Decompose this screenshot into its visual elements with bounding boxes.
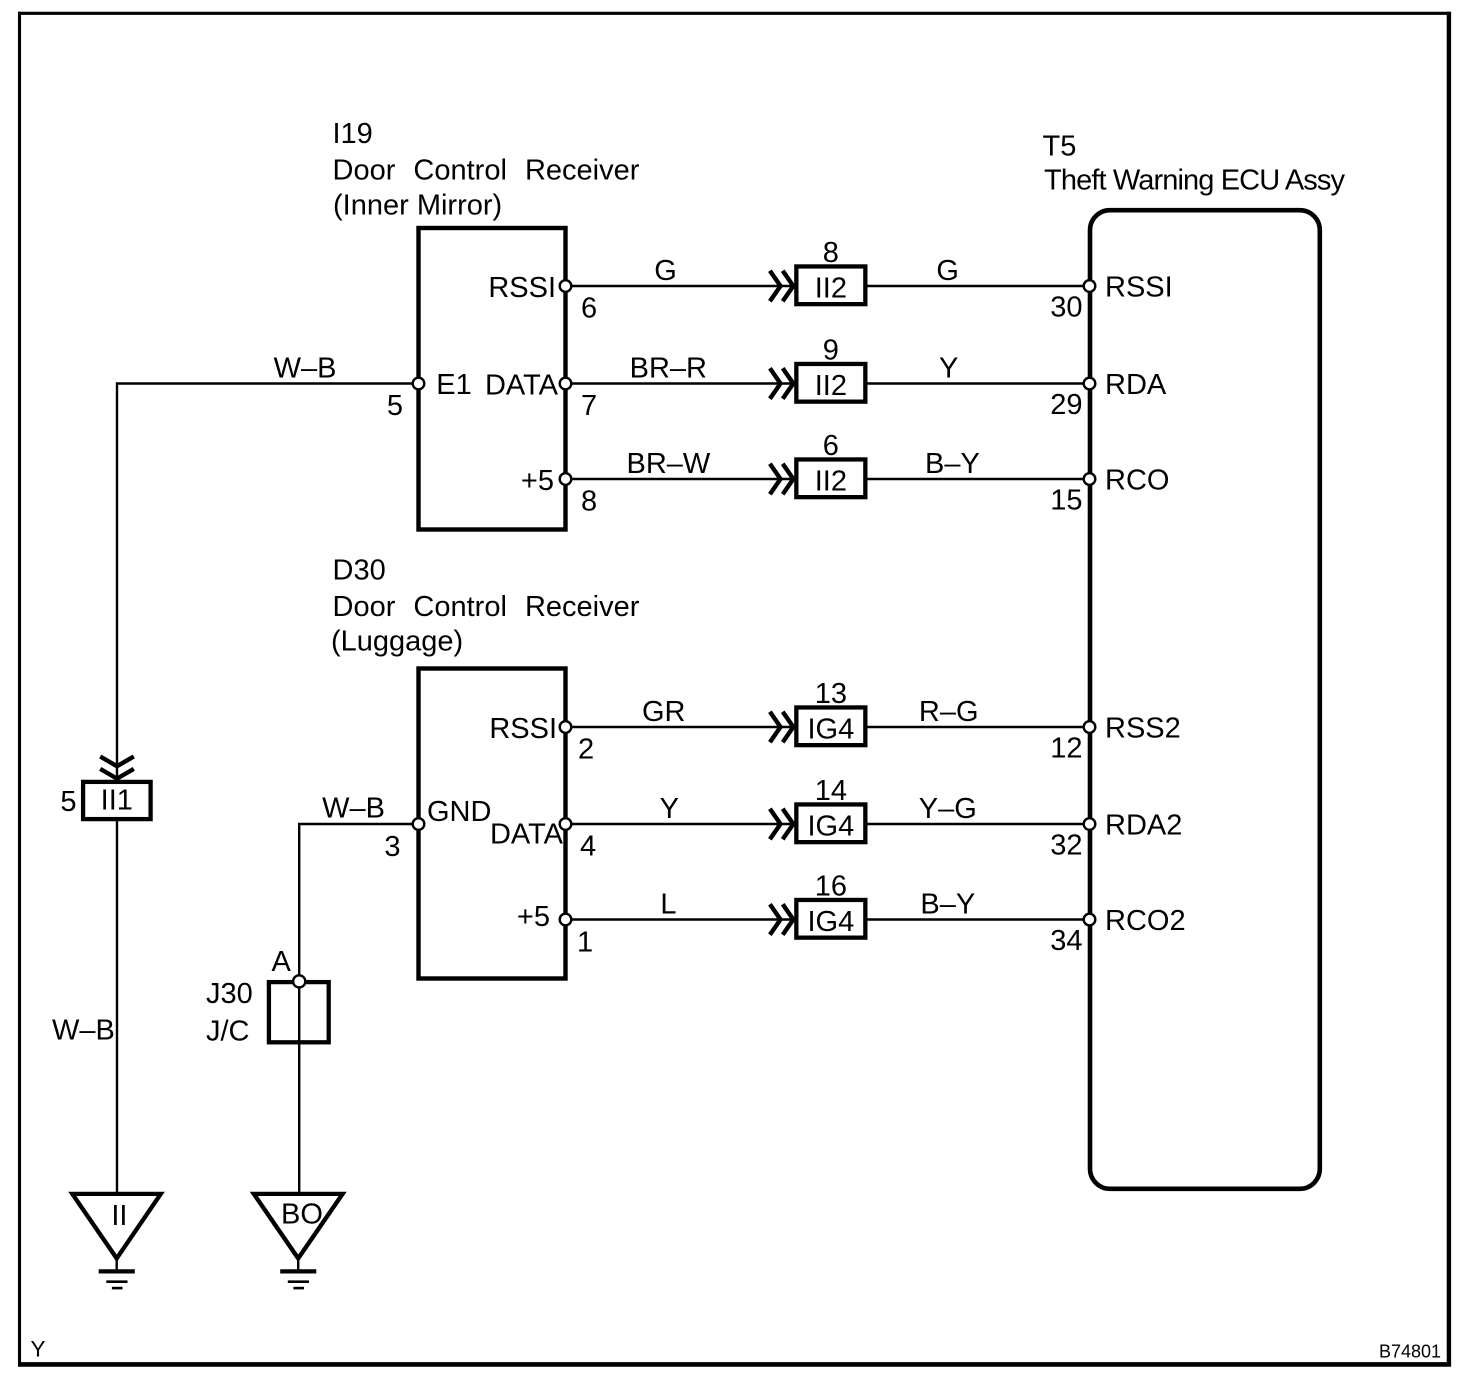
svg-text:RSSI: RSSI [1105,272,1173,304]
svg-text:GND: GND [427,796,491,828]
svg-text:BR–W: BR–W [627,448,711,480]
pin 6 RSSI of I19 [560,280,572,292]
svg-text:D30: D30 [333,555,386,587]
svg-text:13: 13 [815,678,847,710]
svg-text:3: 3 [384,831,400,863]
junction connector J30 box [269,982,329,1042]
label I19 Door Control Receiver (Inner Mirror) [333,118,640,222]
ground symbol under II [99,1258,135,1288]
ground symbol under BO [280,1258,316,1288]
connector II2 chevrons row 2 [770,368,793,399]
svg-text:T5: T5 [1043,131,1077,163]
svg-text:B–Y: B–Y [920,889,975,921]
wire bot row 1 right segment (R–G) [865,726,1089,728]
svg-text:RDA2: RDA2 [1105,810,1182,842]
door control receiver D30 box [419,669,566,979]
svg-text:(Luggage): (Luggage) [331,626,463,658]
svg-text:RSSI: RSSI [488,272,556,304]
wire top row 1 right segment (G) [865,285,1089,287]
svg-text:29: 29 [1050,389,1082,421]
svg-text:E1: E1 [436,369,471,401]
pin 8 +5 of I19 [560,473,572,485]
svg-text:2: 2 [578,734,594,766]
wire W-B from I19 pin 5 to connector II1 [117,384,419,781]
svg-text:A: A [272,946,292,978]
svg-text:IG4: IG4 [807,811,854,843]
connector II2 chevrons row 1 [770,271,793,302]
label J30 J/C [206,978,253,1048]
svg-text:II: II [111,1200,127,1232]
svg-text:II2: II2 [815,370,847,402]
svg-text:8: 8 [823,237,839,269]
pin 32 RDA2 of T5 [1084,818,1096,830]
pin 30 RSSI of T5 [1084,280,1096,292]
svg-text:L: L [660,889,676,921]
svg-text:Theft Warning ECU Assy: Theft Warning ECU Assy [1044,165,1346,197]
svg-text:BO: BO [281,1199,323,1231]
svg-text:R–G: R–G [919,696,979,728]
svg-text:W–B: W–B [52,1015,115,1047]
svg-text:DATA: DATA [490,819,564,851]
svg-text:6: 6 [581,293,597,325]
svg-text:1: 1 [577,927,593,959]
wire bot row 3 right segment (B–Y) [865,918,1089,920]
connector II2 box row 2 (pin 9) [796,364,865,402]
connector II1 chevrons [100,757,134,779]
svg-text:IG4: IG4 [807,906,854,938]
svg-text:9: 9 [823,335,839,367]
svg-text:+5: +5 [521,465,554,497]
svg-text:B74801: B74801 [1379,1342,1441,1362]
svg-text:RDA: RDA [1105,369,1167,401]
svg-text:RCO: RCO [1105,465,1169,497]
connector IG4 chevrons row 2 [770,809,793,840]
svg-text:6: 6 [823,430,839,462]
ground BO triangle [254,1194,343,1259]
svg-text:30: 30 [1050,292,1082,324]
wire bot row 2 right segment (Y–G) [865,823,1089,825]
label D30 Door Control Receiver (Luggage) [331,555,640,658]
wire top row 2 left segment (BR–R) [566,382,797,384]
ground II triangle [72,1194,161,1259]
svg-text:W–B: W–B [322,793,385,825]
pin 34 RCO2 of T5 [1084,914,1096,926]
svg-text:8: 8 [581,486,597,518]
pin 3 GND of D30 [413,818,425,830]
svg-text:15: 15 [1050,485,1082,517]
svg-text:7: 7 [581,390,597,422]
wire from II1 to ground II [116,821,118,1193]
connector II2 chevrons row 3 [770,464,793,495]
pin 12 RSS2 of T5 [1084,721,1096,733]
svg-text:+5: +5 [517,901,550,933]
svg-text:Y–G: Y–G [919,793,977,825]
svg-text:W–B: W–B [274,353,337,385]
theft warning ECU T5 box [1090,210,1320,1189]
svg-text:BR–R: BR–R [630,353,707,385]
svg-text:B–Y: B–Y [925,448,980,480]
svg-text:(Inner Mirror): (Inner Mirror) [333,190,502,222]
pin 7 DATA of I19 [560,378,572,390]
svg-text:II1: II1 [101,785,133,817]
svg-text:Door Control Receiver: Door Control Receiver [333,591,640,623]
svg-text:14: 14 [815,775,847,807]
wire bot row 2 left segment (Y) [566,823,797,825]
svg-text:5: 5 [387,390,403,422]
svg-text:GR: GR [642,696,686,728]
connector II2 box row 3 (pin 6) [796,459,865,497]
svg-text:4: 4 [580,831,596,863]
wire bot row 1 left segment (GR) [566,726,797,728]
svg-text:G: G [654,255,677,287]
svg-text:Door Control Receiver: Door Control Receiver [333,155,640,187]
svg-text:G: G [936,255,959,287]
wire W-B from D30 pin 3 through J30 to ground BO [299,824,418,1193]
connector IG4 box row 1 (pin 13) [796,707,865,745]
wire top row 2 right segment (Y) [865,382,1089,384]
svg-text:RSSI: RSSI [489,713,557,745]
svg-text:IG4: IG4 [807,714,854,746]
svg-text:Y: Y [660,793,679,825]
svg-text:DATA: DATA [485,370,559,402]
pin 5 (E1) of I19 [413,378,425,390]
connector II2 box row 1 (pin 8) [796,266,865,304]
svg-text:II2: II2 [815,273,847,305]
connector IG4 box row 3 (pin 16) [796,900,865,938]
svg-text:16: 16 [815,871,847,903]
wire top row 1 left segment (G) [566,285,797,287]
pin 4 DATA of D30 [560,818,572,830]
pin 1 +5 of D30 [560,914,572,926]
pin 29 RDA of T5 [1084,378,1096,390]
svg-text:Y: Y [31,1337,46,1362]
node A pin circle on J30 [293,975,305,987]
wire bot row 3 left segment (L) [566,918,797,920]
svg-text:5: 5 [60,786,76,818]
connector IG4 chevrons row 1 [770,712,793,743]
label T5 Theft Warning ECU Assy [1043,131,1346,197]
svg-text:J30: J30 [206,978,253,1010]
svg-text:II2: II2 [815,466,847,498]
svg-text:RSS2: RSS2 [1105,713,1181,745]
connector II1 box [83,782,151,819]
svg-text:J/C: J/C [206,1016,250,1048]
door control receiver I19 box [419,228,566,530]
svg-text:I19: I19 [333,118,373,150]
svg-text:32: 32 [1050,830,1082,862]
svg-text:Y: Y [939,353,958,385]
pin 15 RCO of T5 [1084,473,1096,485]
connector IG4 box row 2 (pin 14) [796,804,865,842]
wire top row 3 left segment (BR–W) [566,478,797,480]
svg-text:RCO2: RCO2 [1105,905,1186,937]
pin 2 RSSI of D30 [560,721,572,733]
connector IG4 chevrons row 3 [770,904,793,935]
wire top row 3 right segment (B–Y) [865,478,1089,480]
svg-text:12: 12 [1050,733,1082,765]
svg-text:34: 34 [1050,925,1082,957]
